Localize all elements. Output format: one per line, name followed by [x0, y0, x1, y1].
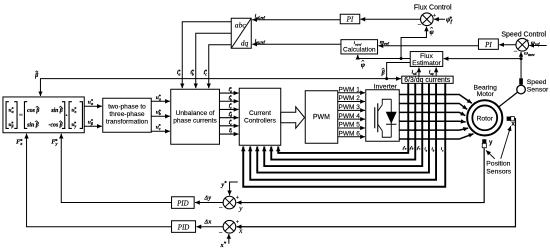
svg-text:Unbalance of: Unbalance of: [176, 110, 215, 117]
svg-text:ua*: ua*: [156, 93, 162, 101]
svg-text:phase currents: phase currents: [173, 118, 217, 125]
svg-text:Speed: Speed: [527, 79, 547, 86]
svg-text:Controllers: Controllers: [244, 118, 277, 125]
svg-text:sin β: sin β: [50, 108, 63, 114]
svg-text:transformation: transformation: [106, 119, 148, 126]
svg-text:PWM 1: PWM 1: [339, 86, 361, 93]
svg-text:PWM 5: PWM 5: [339, 122, 361, 129]
svg-text:−: −: [417, 21, 421, 29]
svg-text:ux*: ux*: [71, 106, 77, 114]
svg-text:uα*: uα*: [88, 98, 94, 106]
svg-text:PI: PI: [484, 41, 492, 49]
svg-text:Position: Position: [486, 161, 510, 168]
svg-text:Fy*: Fy*: [51, 139, 58, 146]
svg-text:6/3/dq currents: 6/3/dq currents: [404, 77, 451, 84]
svg-text:−: −: [219, 229, 223, 237]
svg-text:Sensor: Sensor: [527, 86, 549, 93]
svg-text:Speed Control: Speed Control: [501, 31, 546, 38]
svg-text:Sensors: Sensors: [486, 168, 512, 175]
svg-text:uβ*: uβ*: [8, 121, 14, 129]
svg-text:PID: PID: [176, 200, 189, 207]
svg-text:x: x: [511, 121, 515, 128]
svg-text:sin β: sin β: [26, 122, 39, 128]
svg-text:Flux Control: Flux Control: [414, 4, 452, 11]
svg-text:x: x: [238, 226, 243, 235]
svg-text:mref: mref: [380, 39, 390, 45]
svg-text:Estimator: Estimator: [412, 60, 441, 67]
svg-text:=: =: [19, 110, 23, 119]
svg-text:Rotor: Rotor: [476, 115, 493, 122]
svg-text:uc*: uc*: [156, 123, 162, 131]
svg-text:PWM 4: PWM 4: [339, 113, 361, 120]
svg-text:+: +: [433, 13, 437, 19]
svg-text:PID: PID: [177, 225, 190, 232]
svg-text:-cos β: -cos β: [49, 122, 63, 128]
svg-text:Inverter: Inverter: [374, 83, 398, 90]
svg-text:PWM: PWM: [313, 114, 330, 121]
svg-text:PWM 2: PWM 2: [339, 95, 361, 102]
svg-text:ωref: ωref: [531, 40, 540, 46]
svg-text:PWM 6: PWM 6: [339, 130, 361, 137]
svg-text:Fx*: Fx*: [16, 139, 23, 146]
svg-text:Motor: Motor: [477, 91, 495, 98]
svg-text:abc: abc: [235, 20, 247, 29]
svg-text:ψ: ψ: [429, 29, 434, 36]
svg-text:Δy: Δy: [204, 195, 212, 201]
svg-text:Current: Current: [249, 110, 271, 117]
svg-text:y: y: [238, 203, 243, 212]
svg-text:y: y: [489, 139, 493, 146]
svg-text:+: +: [236, 195, 240, 201]
svg-text:ub*: ub*: [156, 108, 162, 116]
svg-text:PWM 3: PWM 3: [339, 104, 361, 111]
svg-text:Calculation: Calculation: [343, 47, 376, 54]
svg-text:two-phase to: two-phase to: [108, 104, 146, 111]
svg-text:+: +: [236, 219, 240, 225]
svg-text:−: −: [219, 204, 223, 212]
svg-text:ifb: ifb: [410, 145, 414, 151]
svg-text:Δx: Δx: [204, 219, 212, 225]
svg-text:three-phase: three-phase: [109, 111, 145, 118]
svg-text:ifa: ifa: [403, 145, 407, 151]
svg-text:dq: dq: [241, 38, 249, 47]
svg-text:PI: PI: [346, 16, 354, 24]
svg-text:ωmec: ωmec: [524, 51, 535, 57]
svg-text:cos β: cos β: [27, 108, 39, 114]
svg-text:ψf*: ψf*: [446, 15, 452, 25]
svg-text:Flux: Flux: [420, 53, 433, 60]
svg-text:−: −: [514, 48, 518, 56]
svg-text:ψ: ψ: [361, 62, 366, 69]
